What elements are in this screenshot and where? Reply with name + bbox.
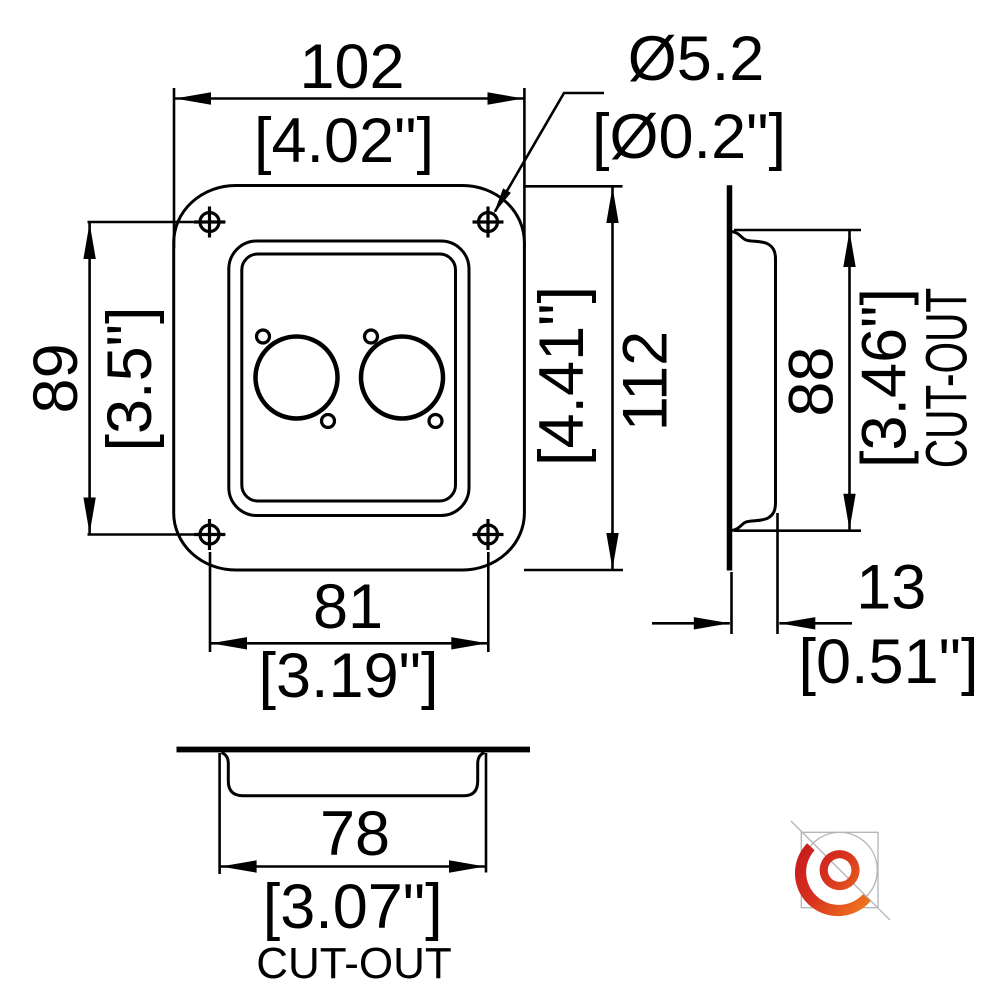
XLR left screw hole bottom <box>322 415 335 428</box>
XLR right screw hole bottom <box>429 415 442 428</box>
front view dish outer edge <box>229 241 469 516</box>
dimension 89 arrow top <box>83 223 95 259</box>
corner screw hole bottom-left <box>194 519 225 550</box>
svg-text:102: 102 <box>299 32 404 102</box>
dimension 88 extension line top <box>734 229 861 232</box>
dimension 13 arrow left <box>694 617 730 629</box>
side view flange plate <box>727 185 733 570</box>
dimension 112 extension line bottom <box>524 569 623 572</box>
corner screw hole top-left <box>194 207 225 238</box>
svg-text:[4.02"]: [4.02"] <box>254 106 434 176</box>
svg-text:112: 112 <box>610 331 680 431</box>
svg-text:CUT-OUT: CUT-OUT <box>256 939 452 988</box>
front view dish inner edge <box>242 254 456 501</box>
dimension 78 extension line right <box>485 753 488 873</box>
svg-text:[Ø0.2"]: [Ø0.2"] <box>592 102 786 172</box>
dimension 102 arrow left <box>175 92 211 104</box>
svg-text:[4.41"]: [4.41"] <box>527 286 597 466</box>
dimension 81 line <box>211 642 487 645</box>
dimension 81 extension line left <box>209 552 212 652</box>
dimension 88 arrow bottom <box>843 494 855 530</box>
dimension 102 line <box>175 97 524 100</box>
corner screw hole bottom-right <box>473 519 504 550</box>
dimension 81 arrow left <box>211 637 247 649</box>
dimension 81 extension line right <box>487 552 490 652</box>
svg-text:13: 13 <box>856 553 926 623</box>
svg-text:CUT-OUT: CUT-OUT <box>915 288 980 468</box>
logo outer arc <box>795 843 871 916</box>
dimension 112 extension line top <box>524 185 623 188</box>
logo gray diagonal line <box>791 821 890 920</box>
svg-text:[0.51"]: [0.51"] <box>799 627 979 697</box>
bottom view dish profile <box>222 753 485 796</box>
svg-text:[3.5"]: [3.5"] <box>95 307 165 452</box>
front view plate outline <box>174 186 525 571</box>
svg-text:[3.07"]: [3.07"] <box>263 872 443 942</box>
dimension 89 line <box>88 223 91 534</box>
dimension 102 extension line right <box>523 88 526 248</box>
corner screw hole top-right <box>473 207 504 238</box>
dimension 78 arrow right <box>449 860 485 872</box>
XLR hole right <box>361 337 443 419</box>
side view dish profile <box>732 232 776 531</box>
logo gray square <box>801 832 878 907</box>
dimension 102 arrow right <box>488 92 524 104</box>
dimension 88 arrow top <box>843 231 855 267</box>
dimension 13 extension line left <box>730 572 733 634</box>
hole callout leader arrow <box>494 188 511 214</box>
dimension 88 extension line bottom <box>734 529 861 532</box>
dimension 88 line <box>848 231 851 530</box>
logo gray circle <box>802 832 877 907</box>
XLR right screw hole top <box>365 330 378 343</box>
dimension 78 extension line left <box>218 753 221 874</box>
bottom view plate edge <box>177 747 531 753</box>
XLR hole left <box>256 337 338 419</box>
dimension 13 line right <box>779 622 852 625</box>
dimension 89 arrow bottom <box>83 498 95 534</box>
svg-text:Ø5.2: Ø5.2 <box>628 24 765 94</box>
svg-text:89: 89 <box>21 343 91 413</box>
dimension 112 arrow bottom <box>606 533 618 569</box>
dimension 13 arrow right <box>779 617 815 629</box>
svg-text:78: 78 <box>320 799 390 869</box>
dimension 112 arrow top <box>606 187 618 223</box>
dimension 89 extension line top <box>88 221 226 224</box>
dimension 13 extension line right <box>776 513 779 634</box>
dimension 102 extension line left <box>173 88 176 248</box>
dimension 112 line <box>611 187 614 569</box>
XLR left screw hole top <box>257 330 270 343</box>
dimension 81 arrow right <box>451 637 487 649</box>
svg-text:81: 81 <box>313 572 383 642</box>
dimension 89 extension line bottom <box>88 533 226 536</box>
svg-text:88: 88 <box>777 347 847 417</box>
svg-text:[3.46"]: [3.46"] <box>850 288 920 468</box>
dimension 78 arrow left <box>221 860 257 872</box>
hole callout leader line <box>495 93 604 212</box>
logo inner ring <box>820 850 860 890</box>
dimension 13 line left <box>652 622 730 625</box>
svg-text:[3.19"]: [3.19"] <box>259 641 439 711</box>
dimension 78 line <box>221 865 485 868</box>
